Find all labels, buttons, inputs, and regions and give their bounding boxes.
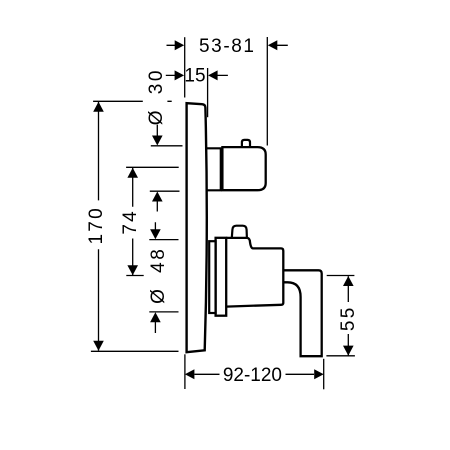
extension line: knob front / 53-81 right bbox=[266, 37, 268, 146]
dim 53-81 line tails bbox=[167, 44, 288, 46]
tick: knob centerline (74 upper) bbox=[126, 166, 179, 168]
dim d30 arrows bbox=[152, 136, 163, 202]
extension line: plate front / 15 right bbox=[207, 68, 209, 117]
svg-text:53-81: 53-81 bbox=[199, 36, 256, 57]
dim d48 arrow tails bbox=[154, 222, 156, 333]
svg-text:74: 74 bbox=[120, 209, 141, 235]
valve body bbox=[226, 238, 283, 307]
dim 74 line bbox=[132, 168, 134, 275]
dim 15 line tails bbox=[166, 74, 228, 76]
extension line: plate back (top) bbox=[184, 37, 186, 97]
svg-text:170: 170 bbox=[86, 206, 107, 244]
valve sleeve bbox=[216, 238, 227, 316]
wall plate (escutcheon, side view) bbox=[187, 103, 207, 352]
dim 74 arrows bbox=[127, 168, 138, 275]
dim 170 arrows bbox=[93, 102, 104, 351]
svg-text:15: 15 bbox=[184, 66, 205, 87]
tick: lever bottom (55 lower) bbox=[326, 355, 355, 357]
tick: valve top (d48 upper) bbox=[149, 239, 178, 241]
svg-text:Ø 30: Ø 30 bbox=[146, 68, 167, 125]
dim 170 line bbox=[98, 102, 100, 351]
valve trim ring bbox=[209, 241, 215, 313]
svg-text:55: 55 bbox=[338, 306, 359, 332]
knob top button bbox=[242, 140, 250, 146]
extension line: lever right / 92-120 right bbox=[323, 359, 325, 390]
svg-text:92-120: 92-120 bbox=[223, 365, 282, 386]
dim 55 line bbox=[347, 276, 349, 355]
tick: plate top (170 upper) bbox=[93, 100, 172, 102]
dim 55 arrows bbox=[343, 276, 354, 356]
tick: plate bottom (170 lower) bbox=[91, 350, 179, 352]
dim d30 arrow tails bbox=[156, 125, 158, 212]
lever handle bbox=[283, 270, 321, 356]
tick: knob top (d30 upper) bbox=[151, 145, 183, 147]
tick: valve centerline right (55 upper) bbox=[327, 275, 355, 277]
extension line: plate back (bottom) bbox=[184, 354, 186, 389]
tick: valve centerline left (74 lower) bbox=[126, 275, 143, 277]
tick: knob bottom (d30 lower) bbox=[150, 190, 180, 192]
thermostat knob stem bbox=[206, 148, 221, 190]
dim 92-120 arrows bbox=[185, 369, 324, 379]
dim 92-120 line bbox=[195, 373, 315, 375]
valve top dome bbox=[232, 226, 247, 238]
tick: valve bottom (d48 lower) bbox=[149, 311, 178, 313]
dim 15 arrows bbox=[175, 70, 218, 80]
dim 53-81 arrows bbox=[175, 40, 278, 50]
thermostat knob body bbox=[222, 147, 265, 190]
dim d48 arrows bbox=[150, 229, 161, 322]
svg-text:Ø 48: Ø 48 bbox=[148, 247, 169, 304]
